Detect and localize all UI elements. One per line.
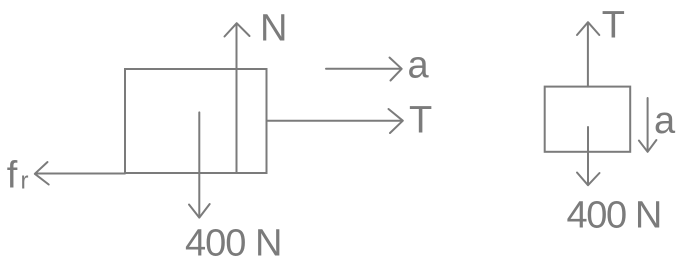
arrow T (tension, right): [267, 109, 403, 133]
svg-text:N: N: [260, 7, 287, 49]
svg-text:a: a: [654, 100, 676, 142]
arrow 400 N weight (right, down): [577, 127, 600, 185]
inner partition line of left box: [236, 69, 238, 173]
svg-text:r: r: [21, 168, 29, 195]
arrow T (right, up): [577, 22, 599, 86]
svg-text:T: T: [602, 5, 625, 47]
svg-text:400 N: 400 N: [567, 195, 661, 237]
svg-text:400 N: 400 N: [185, 222, 281, 259]
arrow N (normal force, up): [225, 23, 250, 69]
svg-text:f: f: [7, 154, 18, 196]
arrow 400 N weight (left, down): [189, 112, 210, 217]
arrow f_r (friction, left): [35, 162, 125, 185]
block (left box): [125, 69, 267, 173]
svg-text:T: T: [409, 100, 432, 142]
svg-text:a: a: [408, 44, 430, 86]
arrow a (right, down): [639, 98, 657, 152]
block (right box): [545, 87, 631, 152]
arrow a (acceleration, right): [326, 58, 402, 81]
